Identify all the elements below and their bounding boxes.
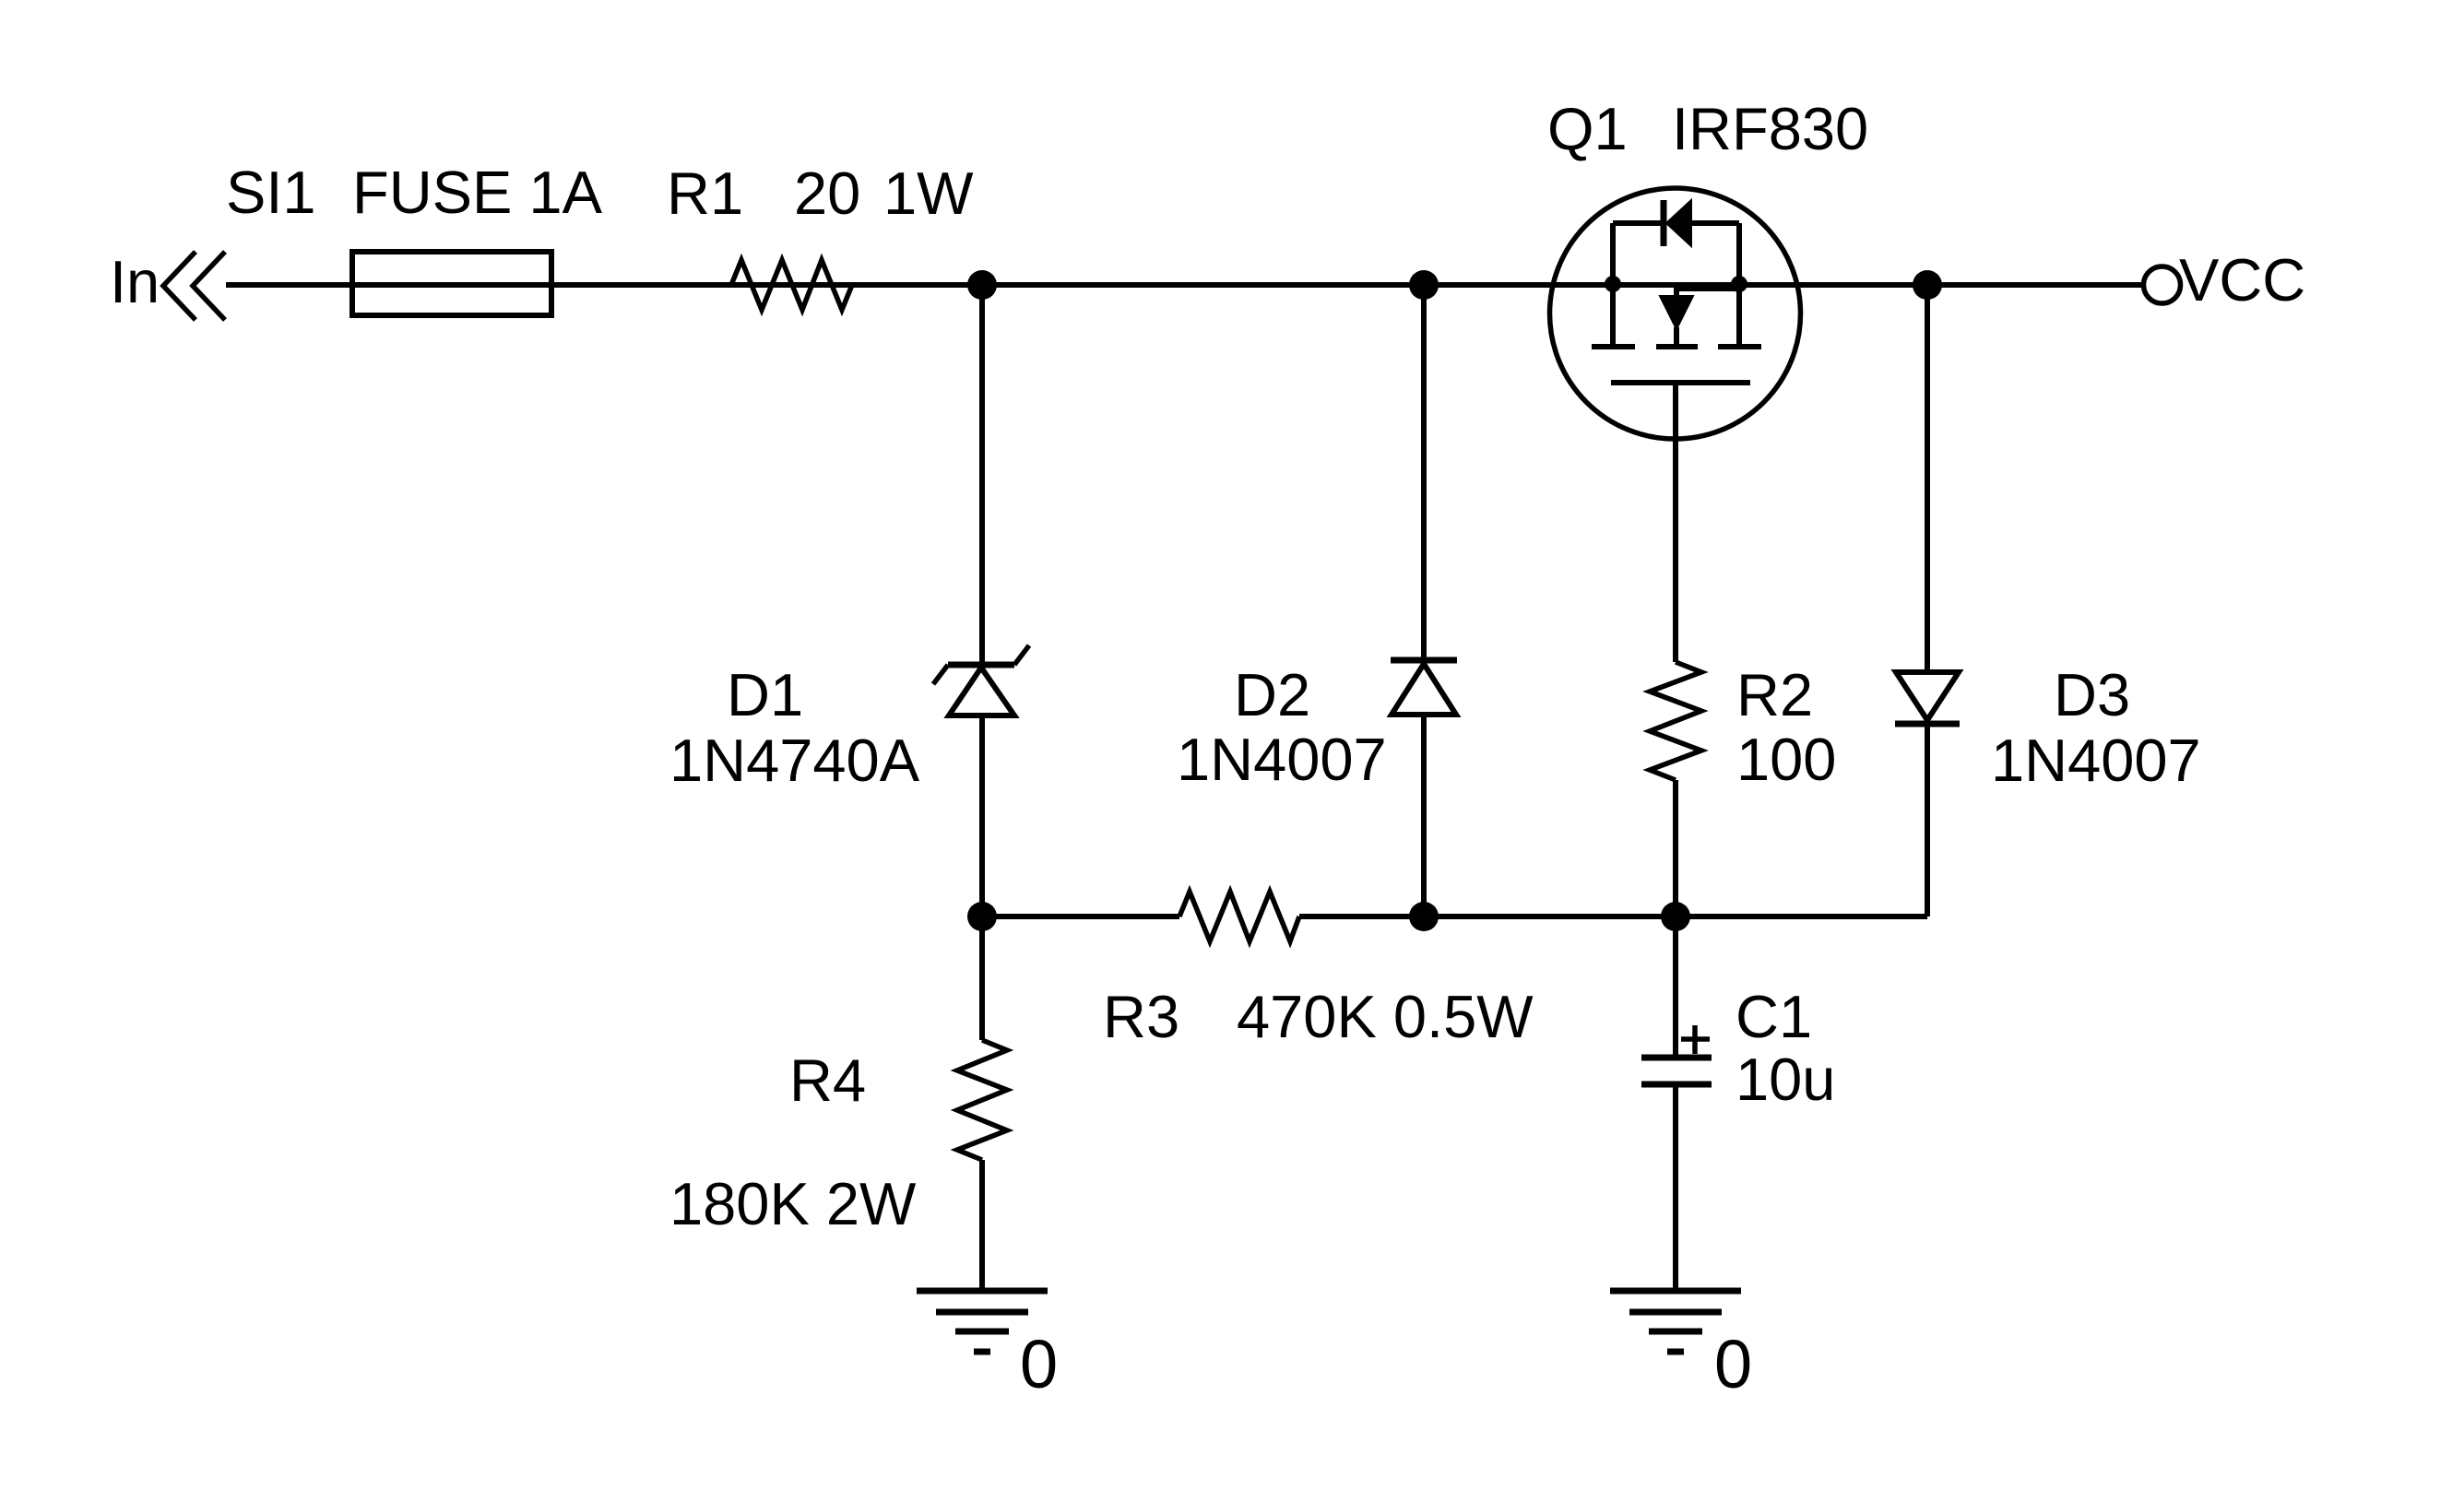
svg-text:D3: D3	[2054, 661, 2130, 728]
svg-text:1N4007: 1N4007	[1177, 726, 1387, 793]
zener diode D1	[933, 645, 1029, 715]
svg-text:In: In	[110, 248, 160, 315]
ground left 0	[917, 1291, 1048, 1352]
Q1 substrate arrow	[1660, 296, 1693, 329]
node A junction after R1	[967, 270, 997, 300]
node C junction above D2	[1409, 270, 1439, 300]
label Q1	[1547, 95, 1628, 162]
label 1N4007 D2	[1177, 726, 1387, 793]
label R1	[667, 160, 743, 227]
label 100	[1736, 726, 1836, 793]
wire R3 to D3 branch corner	[1299, 914, 1927, 919]
label FUSE 1A	[352, 159, 603, 226]
Q1 body diode triangle	[1666, 200, 1691, 246]
node E junction R2/C1	[1661, 902, 1690, 931]
label 180K 2W	[669, 1170, 917, 1237]
label IRF830	[1672, 95, 1868, 162]
label 0 right	[1714, 1326, 1752, 1402]
svg-text:1W: 1W	[883, 160, 974, 227]
label D3	[2054, 661, 2130, 728]
wire down from node A to D1	[979, 285, 985, 663]
svg-text:R2: R2	[1736, 661, 1813, 728]
label D1	[727, 661, 803, 728]
svg-text:10u: 10u	[1735, 1046, 1835, 1113]
ground right 0	[1610, 1291, 1741, 1352]
label 470K 0.5W	[1237, 983, 1534, 1050]
label 1W	[883, 160, 974, 227]
label SI1	[226, 159, 316, 226]
Q1 right vertical lead	[1736, 223, 1742, 347]
svg-text:Q1: Q1	[1547, 95, 1628, 162]
wire D1 to node B	[979, 715, 985, 1040]
wire node B to R3	[982, 914, 1179, 919]
capacitor C1 plates	[1641, 1058, 1712, 1084]
resistor R2	[1650, 662, 1701, 780]
svg-text:C1: C1	[1735, 983, 1812, 1050]
node B junction D1/R4/R3	[967, 902, 997, 931]
label R3	[1103, 983, 1179, 1050]
label R4	[789, 1047, 866, 1114]
Q1 left vertical lead	[1610, 223, 1616, 347]
label R2	[1736, 661, 1813, 728]
svg-text:20: 20	[794, 160, 860, 227]
svg-text:1N4740A: 1N4740A	[669, 727, 920, 794]
resistor R3	[1179, 892, 1299, 941]
label 10u	[1735, 1046, 1835, 1113]
svg-text:FUSE 1A: FUSE 1A	[352, 159, 603, 226]
svg-text:0: 0	[1714, 1326, 1752, 1402]
svg-text:D2: D2	[1234, 661, 1310, 728]
wire D2 to node D	[1421, 715, 1427, 916]
port VCC circle	[2144, 266, 2181, 303]
label D2	[1234, 661, 1310, 728]
port In chevron symbol	[163, 252, 225, 320]
svg-text:VCC: VCC	[2179, 246, 2305, 313]
wire down from node C to D2	[1421, 285, 1427, 661]
Q1 channel bar middle	[1656, 344, 1698, 349]
fuse SI1 body	[352, 252, 551, 315]
Q1 top-left wire to body diode	[1613, 220, 1661, 226]
node F junction after Q1	[1913, 270, 1942, 300]
svg-text:R4: R4	[789, 1047, 866, 1114]
resistor R1	[731, 260, 852, 310]
wire D3 to node wire corner	[1925, 724, 1930, 916]
Q1 source pin dot	[1731, 276, 1747, 292]
svg-text:1N4007: 1N4007	[1991, 727, 2201, 794]
Q1 substrate jog wire	[1676, 289, 1739, 297]
svg-text:SI1: SI1	[226, 159, 316, 226]
diode D2	[1391, 660, 1457, 715]
wire main horizontal In to VCC	[226, 282, 2142, 288]
Q1 drain pin dot	[1605, 276, 1621, 292]
node D junction D2/R3 wire	[1409, 902, 1439, 931]
Q1 channel bar right	[1718, 344, 1761, 349]
svg-text:0: 0	[1020, 1326, 1058, 1402]
transistor Q1 circle	[1550, 188, 1801, 439]
capacitor C1 plus sign	[1681, 1025, 1710, 1054]
Q1 body diode cathode bar	[1661, 200, 1667, 246]
svg-text:R1: R1	[667, 160, 743, 227]
wire R4 to ground	[979, 1160, 985, 1291]
Q1 gate bar	[1611, 380, 1750, 385]
wire node E to C1	[1673, 916, 1678, 1058]
label 1N4007 D3	[1991, 727, 2201, 794]
Q1 substrate arrow stem	[1674, 327, 1679, 347]
label C1	[1735, 983, 1812, 1050]
wire gate stem down to R2	[1673, 383, 1678, 662]
svg-text:100: 100	[1736, 726, 1836, 793]
svg-text:180K 2W: 180K 2W	[669, 1170, 917, 1237]
label VCC	[2179, 246, 2305, 313]
label 0 left	[1020, 1326, 1058, 1402]
wire down from node F to D3	[1925, 285, 1930, 672]
port In label	[110, 248, 160, 315]
svg-text:D1: D1	[727, 661, 803, 728]
svg-text:470K 0.5W: 470K 0.5W	[1237, 983, 1534, 1050]
svg-text:R3: R3	[1103, 983, 1179, 1050]
label 1N4740A	[669, 727, 920, 794]
Q1 top-right wire from body diode	[1691, 220, 1739, 226]
label 20	[794, 160, 860, 227]
wire C1 to ground	[1673, 1084, 1678, 1291]
resistor R4	[957, 1040, 1007, 1160]
Q1 channel bar left	[1592, 344, 1635, 349]
diode D3	[1895, 672, 1960, 724]
wire R2 to node E	[1673, 780, 1678, 916]
svg-text:IRF830: IRF830	[1672, 95, 1868, 162]
